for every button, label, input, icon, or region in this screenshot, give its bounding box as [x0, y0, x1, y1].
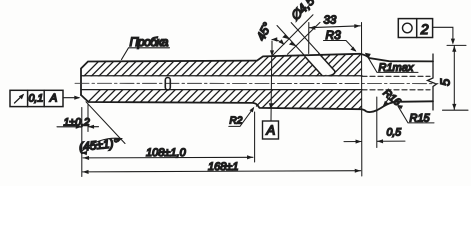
label R15: [397, 105, 434, 124]
dimension 108±1,0: [83, 112, 255, 162]
dimension 1±0,2: [57, 104, 99, 132]
tube outer profile top: [81, 54, 433, 95]
svg-text:(45±1)°: (45±1)°: [78, 136, 119, 154]
label R2: [229, 107, 255, 127]
chamfer 45° construction line: [86, 102, 125, 144]
svg-text:108±1,0: 108±1,0: [146, 147, 187, 159]
hatching lower wall: [40, 60, 445, 150]
dimension 168±1: [83, 161, 361, 174]
hole ⌀4,5 white channel: [305, 53, 336, 76]
chamfer angle arc (45±1)°: [78, 136, 122, 155]
svg-text:33: 33: [324, 14, 337, 26]
circularity tolerance frame: [398, 19, 455, 45]
break line at right end: [428, 54, 437, 110]
label R1max: [365, 53, 418, 74]
svg-text:0,1: 0,1: [29, 93, 44, 105]
runout tolerance frame: [10, 90, 80, 106]
label R16: [381, 87, 404, 109]
svg-text:Пробка: Пробка: [130, 35, 169, 49]
svg-text:45°: 45°: [254, 20, 275, 43]
svg-text:2: 2: [420, 21, 429, 37]
tube outer profile bottom: [81, 95, 433, 112]
svg-text:R3: R3: [326, 28, 342, 42]
label R3: [324, 28, 357, 52]
svg-text:0,5: 0,5: [387, 126, 402, 138]
hatching upper wall: [40, 50, 425, 120]
plug end face: [165, 78, 170, 90]
datum A box: [263, 121, 279, 139]
dimension 5: [438, 45, 469, 110]
dimension 33: [309, 14, 361, 53]
angle 45° at hole: [254, 20, 285, 56]
dimension ∅4,5: [277, 0, 319, 56]
hole dimension extension lines: [272, 15, 320, 56]
svg-text:∅4,5: ∅4,5: [288, 0, 318, 24]
svg-text:A: A: [266, 123, 276, 138]
shared right extension line (33 / 168 / 0,5): [361, 23, 363, 177]
svg-text:5: 5: [438, 78, 453, 86]
datum A leader line: [269, 57, 274, 121]
bore top line: [81, 75, 362, 77]
svg-text:A: A: [49, 93, 57, 105]
dimension 0,5: [344, 97, 405, 148]
center axis line: [75, 82, 438, 84]
bore bottom line: [81, 89, 362, 91]
label Пробка: [122, 35, 170, 60]
left shared extension line: [81, 108, 83, 177]
